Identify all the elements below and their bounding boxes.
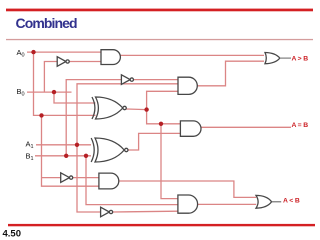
- wire inverter I4 output to AND G5: [113, 210, 178, 213]
- svg-text:A0: A0: [17, 48, 25, 59]
- wire A1 up-feed to AND G3: [77, 84, 178, 145]
- wire A0 feed down to AND G4: [42, 115, 99, 186]
- wire x0 down-feed to AND G5: [161, 124, 178, 199]
- svg-text:Combined: Combined: [16, 15, 78, 31]
- wire AND G1 output to OR gate A>B: [121, 54, 265, 56]
- AND gate G3: [178, 77, 197, 94]
- wire AND G3 output to OR gate A>B: [198, 61, 265, 86]
- junction node A1: [75, 143, 79, 147]
- AND gate G2 (A=B): [180, 121, 201, 136]
- wire B0 branch down to XNOR1 top input: [54, 92, 96, 103]
- inverter I3 (A0'): [61, 173, 70, 183]
- inverter I2 (B1'): [121, 75, 130, 85]
- wire AND G5 output to OR gate A<B: [197, 203, 256, 205]
- AND gate G5: [178, 195, 198, 213]
- AND gate G1: [101, 50, 120, 65]
- AND gate G4: [99, 173, 119, 189]
- wire AND G4 output to OR gate A<B: [119, 181, 256, 197]
- svg-text:B0: B0: [17, 87, 25, 98]
- junction node B1 left: [64, 154, 68, 158]
- junction node x0 lower: [159, 122, 163, 126]
- svg-text:A<B: A<B: [283, 198, 300, 205]
- wire AND G2 output to A=B label: [201, 126, 291, 128]
- svg-text:A=B: A=B: [292, 122, 309, 129]
- svg-text:A>B: A>B: [292, 56, 309, 63]
- inverter I4 (A1'): [101, 207, 110, 217]
- bottom red rule: [8, 224, 315, 226]
- svg-text:A1: A1: [26, 140, 34, 151]
- junction node B1 right: [84, 154, 88, 158]
- svg-text:B1: B1: [26, 152, 34, 163]
- wire B0 horizontal: [27, 91, 72, 93]
- wire A1 horizontal: [36, 144, 91, 146]
- wire XNOR2 output up to AND G2: [128, 133, 180, 150]
- wire A1 down-feed to inverter I4: [77, 145, 100, 212]
- OR A>B output lead: [280, 57, 291, 59]
- OR gate A<B: [256, 195, 272, 208]
- wire inverter I3 output to AND G4: [73, 177, 99, 179]
- wire XNOR1 output: [126, 108, 146, 111]
- OR gate A>B: [265, 53, 280, 64]
- inverter I1 (B0'): [57, 57, 66, 67]
- wire B1 down-feed to AND G5: [86, 156, 178, 205]
- OR A<B output lead: [272, 201, 282, 203]
- junction node A0 lower: [39, 113, 43, 117]
- wire A0 horizontal: [27, 51, 101, 53]
- junction node B0: [52, 90, 56, 94]
- wire inverter I2 output to AND G3: [134, 79, 179, 81]
- wire XNOR1 output junction up to AND G3: [147, 91, 178, 109]
- XNOR gate X2 (A1,B1): [95, 138, 124, 162]
- wire A0 branch vertical down to XNOR1: [34, 52, 96, 115]
- wire inverter I1 output to AND G1: [69, 61, 101, 63]
- junction node A0: [31, 50, 35, 54]
- wire B0 up-feed to inverter I1 and down-feed to inverter I3: [44, 62, 57, 93]
- wire XNOR1 output down to AND G2: [147, 110, 181, 124]
- wire B1 up-feed to inverter I2: [66, 80, 121, 156]
- svg-text:4.50: 4.50: [3, 229, 22, 240]
- junction node x0 output: [144, 107, 148, 111]
- XNOR gate X1 (A0,B0): [96, 97, 123, 119]
- wire I3 input branch: [42, 177, 61, 179]
- slide top red bar: [6, 9, 313, 12]
- wire B1 horizontal: [35, 155, 91, 157]
- title underline rule: [6, 39, 313, 40]
